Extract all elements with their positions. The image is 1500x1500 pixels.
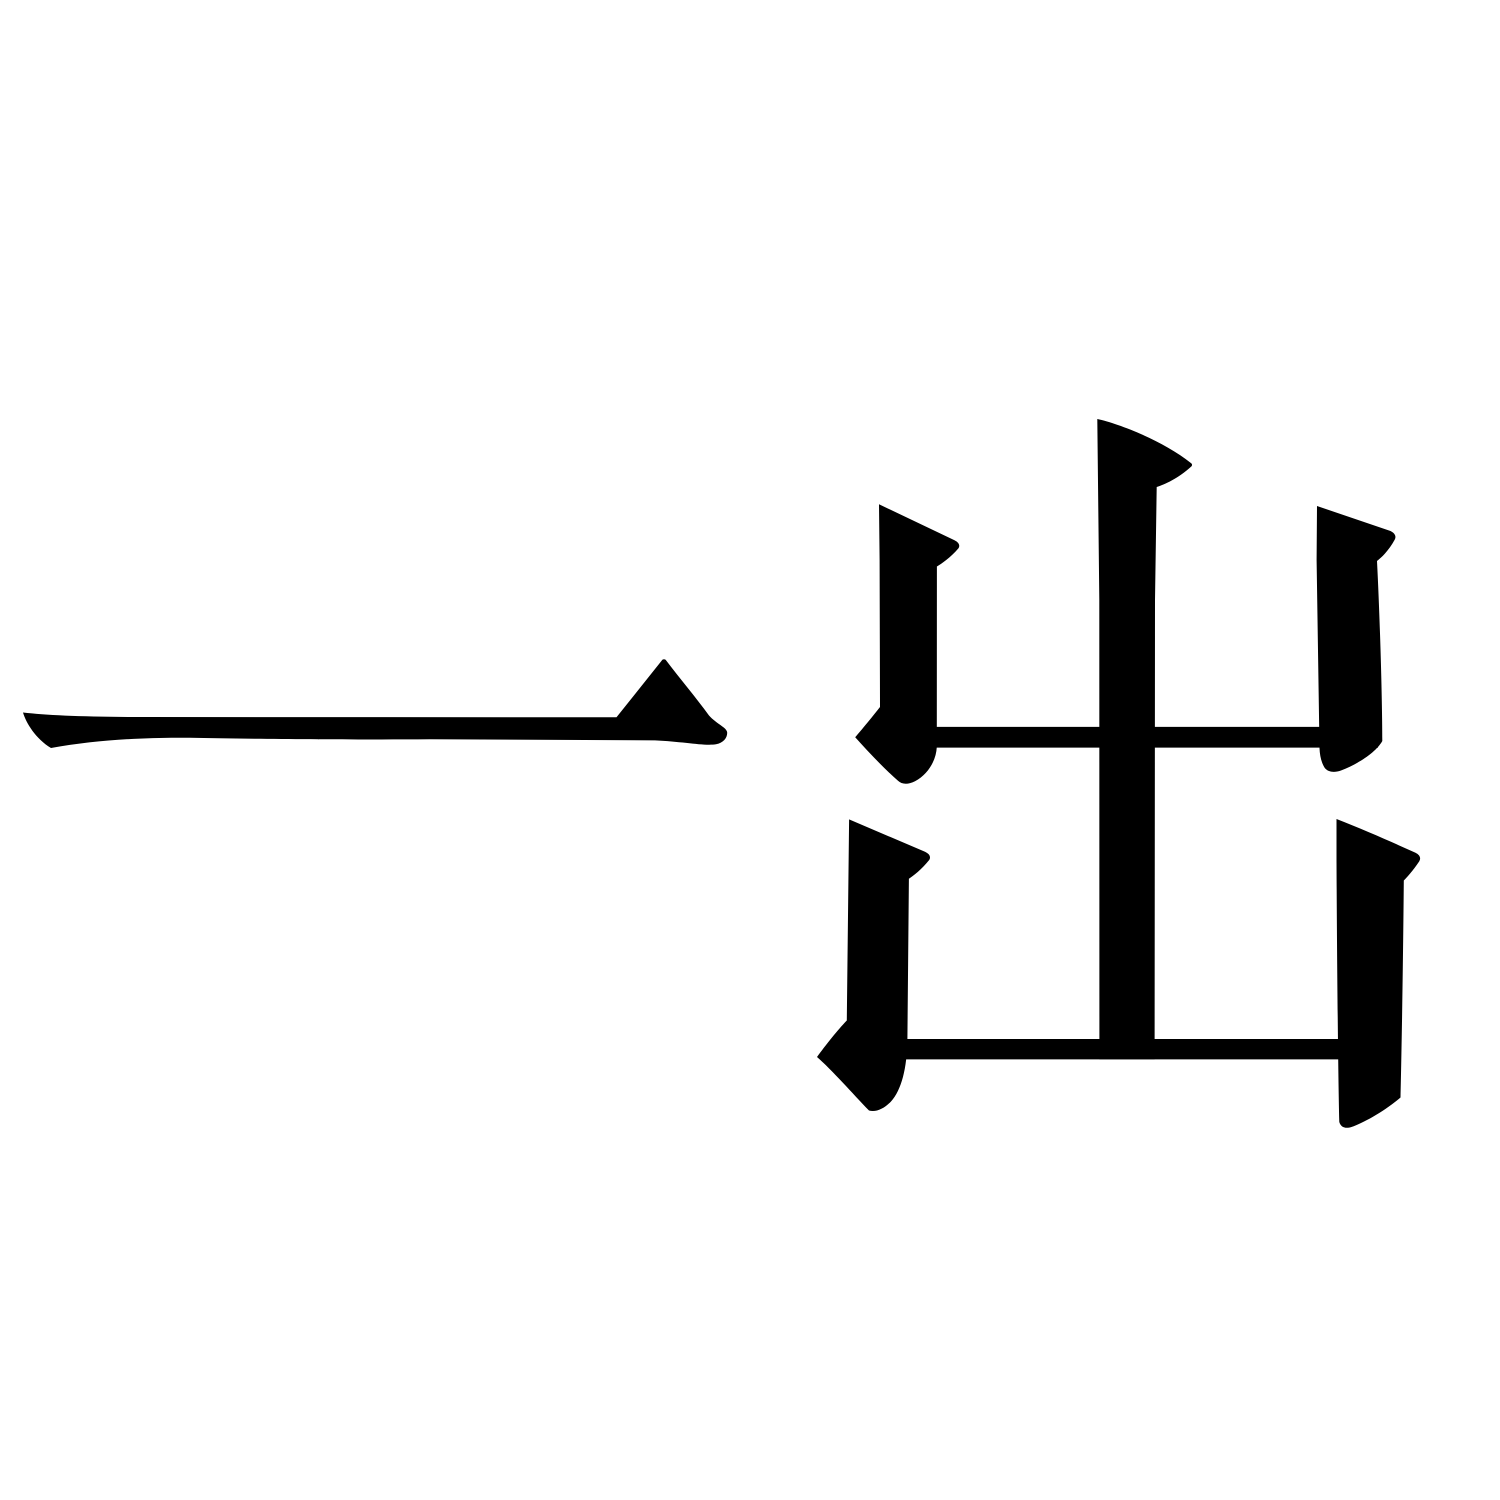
character 出 : stroke 5 - lower-left vertical with hook <box>817 819 930 1111</box>
character 出 : stroke 4 - upper-left vertical with hook <box>855 504 959 783</box>
character 出 : stroke 3 - bottom horizontal bar <box>900 1039 1342 1059</box>
character 出 : stroke 7 - lower-right vertical <box>1337 819 1421 1128</box>
character 一 : horizontal stroke (héng) with left droplet start and right triangle end <box>23 659 727 748</box>
character 出 : stroke 1 - center vertical with top-right flag <box>1097 419 1192 1059</box>
character 出 : stroke 6 - upper-right vertical <box>1317 506 1396 772</box>
character 出 : stroke 2 - middle horizontal bar <box>930 727 1378 748</box>
